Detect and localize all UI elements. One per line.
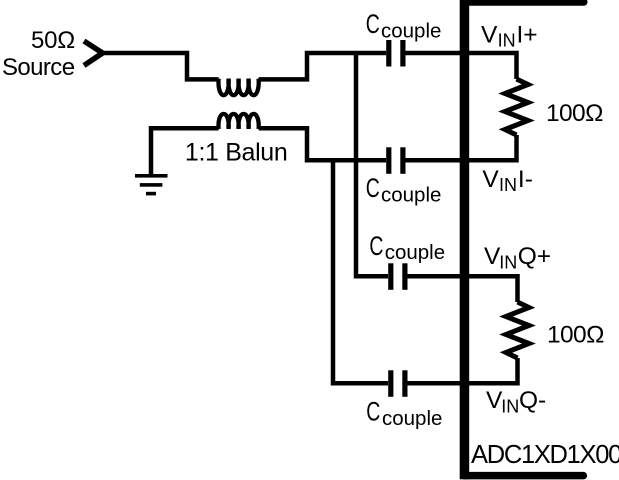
svg-text:V: V (481, 22, 498, 49)
svg-text:couple: couple (382, 407, 442, 430)
label Ccouple C1 (366, 9, 442, 42)
svg-text:C: C (369, 231, 383, 261)
inductor top winding of balun (218, 79, 258, 96)
svg-text:I+: I+ (517, 22, 538, 49)
wire bus I- rail to Q- rail (333, 160, 388, 383)
ADC boundary vertical bar (460, 0, 470, 479)
wire bottom winding left lead (151, 128, 219, 174)
wire VINQ+ node to resistor R2 (464, 276, 518, 302)
ADC boundary top arm (464, 0, 584, 6)
capacitor C3 (Q+) (388, 263, 407, 290)
wire VINI+ node to resistor R1 (464, 53, 517, 79)
label Ccouple C4 (366, 397, 442, 430)
svg-text:100Ω: 100Ω (547, 322, 604, 349)
svg-text:IN: IN (501, 396, 519, 416)
svg-text:Q+: Q+ (518, 243, 551, 270)
svg-text:C: C (366, 9, 380, 39)
svg-text:Q-: Q- (519, 387, 546, 414)
wire C1 to ADC (406, 51, 465, 56)
wire C4 to ADC (408, 381, 465, 386)
wire bus I+ rail to Q+ rail (356, 53, 388, 276)
svg-text:couple: couple (381, 183, 441, 206)
capacitor C1 (I+) (386, 40, 405, 67)
ADC boundary bottom arm (464, 472, 583, 480)
capacitor C4 (Q-) (388, 370, 407, 397)
wire bottom winding to I- rail (259, 128, 387, 160)
svg-text:C: C (366, 173, 380, 203)
wire source to balun (101, 53, 219, 79)
label VINQ- (486, 387, 546, 416)
wire C3 to ADC (408, 274, 465, 279)
source connector arrow (84, 41, 103, 66)
svg-text:ADC1XD1X00: ADC1XD1X00 (471, 441, 619, 469)
svg-text:IN: IN (498, 31, 516, 51)
label VINI+ (481, 22, 538, 51)
label Ccouple C2 (366, 173, 442, 206)
resistor R1 100 ohm (505, 79, 528, 135)
svg-text:1:1 Balun: 1:1 Balun (185, 139, 288, 167)
label Ccouple C3 (369, 231, 445, 264)
inductor bottom winding of balun (218, 114, 258, 129)
wire C2 to ADC (406, 158, 465, 163)
label VINQ+ (484, 243, 551, 272)
svg-text:Source: Source (2, 54, 75, 81)
svg-text:100Ω: 100Ω (546, 100, 603, 127)
svg-text:I-: I- (518, 166, 533, 193)
svg-text:IN: IN (499, 175, 517, 195)
svg-text:couple: couple (385, 241, 445, 264)
ground (135, 174, 168, 195)
label VINI- (482, 166, 532, 195)
svg-text:50Ω: 50Ω (31, 27, 75, 54)
capacitor C2 (I-) (386, 147, 405, 174)
wire top winding to top rail (259, 53, 387, 79)
svg-text:V: V (482, 166, 499, 193)
svg-text:couple: couple (381, 19, 441, 42)
svg-text:C: C (366, 397, 380, 427)
svg-text:IN: IN (499, 252, 517, 272)
wire R2 bottom to VINQ- node (464, 358, 518, 383)
wire R1 bottom to VINI- node (464, 135, 517, 160)
resistor R2 100 ohm (506, 302, 529, 358)
